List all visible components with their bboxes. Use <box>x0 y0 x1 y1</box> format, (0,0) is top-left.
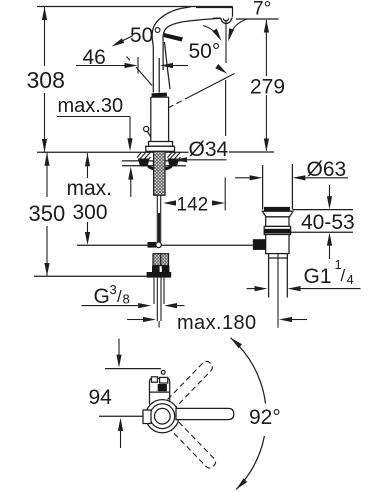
svg-text:/: / <box>341 266 346 285</box>
svg-text:142: 142 <box>177 195 209 216</box>
deck bottom lines <box>122 161 186 166</box>
svg-text:50°: 50° <box>130 24 162 47</box>
drain upper body <box>266 217 289 227</box>
top view knob square <box>143 410 151 424</box>
top reference line <box>37 6 233 8</box>
dimension 142 <box>163 195 225 216</box>
svg-text:350: 350 <box>29 201 66 226</box>
label 7deg <box>228 0 278 42</box>
dimension 308 <box>27 7 65 152</box>
deck hatching right <box>168 152 181 161</box>
pop-up rod <box>77 242 253 248</box>
svg-text:/: / <box>117 287 122 306</box>
dimension 46 <box>76 46 188 74</box>
dashed rotated spout top view upper <box>168 359 215 407</box>
svg-text:8: 8 <box>123 292 130 307</box>
svg-text:max.30: max.30 <box>58 95 124 117</box>
svg-text:max.180: max.180 <box>177 312 257 334</box>
svg-text:G1: G1 <box>304 265 332 288</box>
deck hatching left <box>137 152 151 161</box>
dimension 94 <box>89 339 162 449</box>
top view spout bar <box>176 408 234 419</box>
dashed rotated spout top view lower <box>171 422 218 470</box>
svg-text:308: 308 <box>27 67 65 93</box>
supply pipes <box>154 278 164 328</box>
svg-text:3: 3 <box>110 282 117 297</box>
label 50deg left <box>112 24 162 47</box>
dimension max.180 <box>127 312 307 334</box>
dashed rotated spout line <box>168 64 235 108</box>
dimension max.300 <box>67 153 113 245</box>
threaded shank <box>154 152 165 196</box>
faucet spout outline <box>152 7 233 47</box>
dashed rotated handle line left <box>127 57 153 86</box>
faucet body <box>146 93 175 152</box>
mounting nuts under deck <box>138 159 179 171</box>
dimension G3/8 <box>82 282 185 308</box>
deck top line <box>37 151 274 153</box>
dimension 279 <box>250 20 285 152</box>
label 50deg right <box>189 26 222 64</box>
svg-text:max.: max. <box>67 177 113 200</box>
top view body circles <box>146 400 179 433</box>
pop-up knob on body <box>144 126 151 137</box>
waste pipe <box>269 254 288 328</box>
svg-text:7°: 7° <box>253 0 271 20</box>
drain stopper <box>264 207 290 211</box>
supply hose <box>157 195 160 242</box>
top view handle <box>150 377 170 406</box>
dimension Ø63 <box>235 158 348 181</box>
supply connection threads <box>147 254 172 278</box>
dimension 350 <box>29 153 156 276</box>
top view handle pin <box>161 370 165 374</box>
drain locknut <box>264 226 290 234</box>
svg-text:92°: 92° <box>249 406 281 429</box>
swivel arc 92deg <box>231 338 281 490</box>
svg-text:40-53: 40-53 <box>301 211 355 234</box>
dimension 40-53 <box>290 185 355 259</box>
drain lower body <box>253 235 289 259</box>
dimension Ø34 <box>174 138 229 162</box>
drain flange <box>262 211 293 217</box>
svg-text:Ø34: Ø34 <box>189 138 229 161</box>
svg-text:300: 300 <box>73 201 108 224</box>
svg-text:279: 279 <box>250 76 285 99</box>
drain tailpiece <box>263 164 293 210</box>
svg-text:4: 4 <box>347 272 354 287</box>
spout tip extension line <box>224 20 227 211</box>
faucet neck <box>153 42 163 93</box>
faucet handle lever <box>164 33 184 89</box>
svg-text:G: G <box>94 285 110 308</box>
svg-text:50°: 50° <box>189 40 221 63</box>
dimension max.30 <box>57 95 133 197</box>
svg-text:94: 94 <box>89 386 113 409</box>
dimension G1 1/4 <box>247 257 361 291</box>
